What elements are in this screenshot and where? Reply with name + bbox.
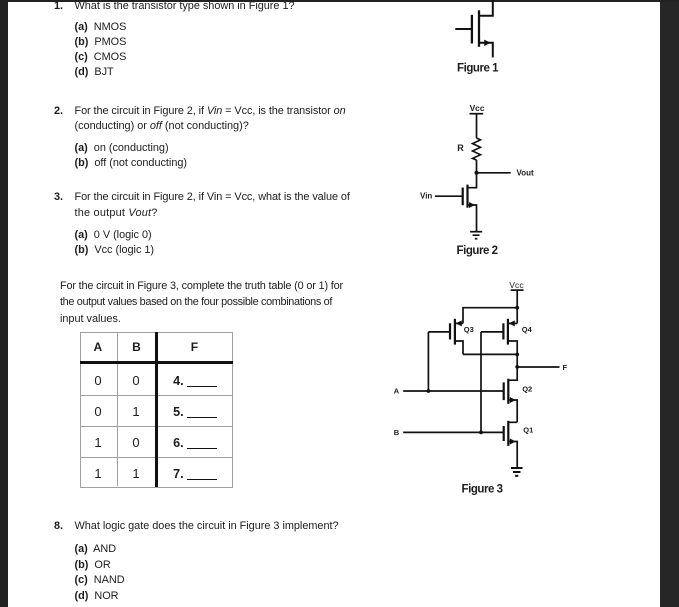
Truth table <box>80 332 233 487</box>
thick header underline <box>80 361 233 364</box>
wire Q4 gate <box>481 331 503 333</box>
resistor R <box>473 138 481 160</box>
svg-text:Vcc: Vcc <box>509 280 524 290</box>
node junction dot drain bus <box>515 353 519 357</box>
transistor Q2 channel bar <box>507 379 509 404</box>
transistor Q-fig1 channel bar <box>478 10 480 47</box>
transistor Q3 source wire <box>455 322 463 324</box>
wire Vcc to resistor <box>476 114 478 138</box>
transistor Q-fig1 source arrow <box>484 40 490 46</box>
FIGURE 3 : CMOS NAND gate <box>385 275 580 500</box>
svg-text:R: R <box>457 143 464 153</box>
transistor Q-fig1 source wire <box>480 43 493 58</box>
svg-text:Q3: Q3 <box>464 325 474 334</box>
wire drain bus to F node <box>516 354 518 367</box>
wire input A to Q2 gate <box>403 390 504 392</box>
transistor Q-fig2 source arrow <box>469 202 475 208</box>
svg-text:Figure 2: Figure 2 <box>457 245 498 257</box>
thick B|F vertical <box>155 332 158 487</box>
row 1 <box>94 375 101 386</box>
Question 2 <box>54 106 63 117</box>
svg-text:Figure 3: Figure 3 <box>462 484 503 496</box>
wire F node to Q2 drain <box>509 367 517 380</box>
transistor Q-fig2 channel bar <box>466 185 468 208</box>
dark top line <box>0 0 679 2</box>
Question 8 <box>54 521 63 532</box>
transistor Q-fig2 gate bar <box>462 188 464 206</box>
outer border <box>80 332 234 488</box>
wire drain bus Q3-Q4 <box>463 353 517 355</box>
wire resistor to node <box>476 160 478 173</box>
svg-text:Vcc: Vcc <box>470 103 485 113</box>
transistor Q-fig1 gate bar <box>471 15 473 44</box>
wire F output <box>517 366 559 368</box>
transistor Q1 gate bar <box>503 426 505 441</box>
wire node to drain <box>468 173 477 188</box>
dark right strip <box>660 0 679 607</box>
svg-text:Q2: Q2 <box>522 385 532 394</box>
FIGURE 2 : resistor-loaded NMOS inverter <box>415 98 545 260</box>
transistor Q1 channel bar <box>507 421 509 446</box>
FIGURE 1 : NMOS symbol <box>440 0 560 80</box>
transistor Q4 drain wire <box>508 341 517 354</box>
ground <box>511 468 523 476</box>
transistor Q4 source arrow <box>509 320 515 326</box>
transistor Q1 source arrow <box>510 439 516 445</box>
header text <box>94 342 103 353</box>
transistor Q4 source wire <box>508 322 517 324</box>
Paragraph before table <box>60 281 343 292</box>
transistor Q2 source wire <box>509 400 517 422</box>
transistor Q2 gate bar <box>503 382 505 400</box>
node Vcc rail <box>511 289 524 291</box>
row 2 <box>94 406 101 417</box>
transistor Q1 source wire <box>509 442 517 468</box>
transistor Q3 channel bar <box>454 319 456 345</box>
wire Q3 gate <box>428 331 450 333</box>
transistor Q4 channel bar <box>507 319 509 345</box>
wire Vin to gate <box>435 195 463 197</box>
svg-text:F: F <box>563 363 568 372</box>
svg-text:Vin: Vin <box>420 192 432 201</box>
node junction dot A <box>427 389 431 393</box>
transistor Q-fig1 gate wire <box>455 28 472 30</box>
transistor Q3 source arrow <box>456 320 462 326</box>
node junction dot Vcc/top-rail <box>515 306 519 310</box>
second row line <box>80 395 233 396</box>
transistor Q3 drain wire <box>455 341 463 354</box>
transistor Q3 gate bar <box>449 323 451 339</box>
node Vcc rail <box>470 113 484 115</box>
node Vout junction dot <box>475 171 479 175</box>
row 4 <box>94 468 101 479</box>
row 3 <box>94 437 101 448</box>
svg-text:Figure 1: Figure 1 <box>457 63 499 75</box>
svg-text:A: A <box>394 386 400 395</box>
wire Vcc down to Q4 source <box>516 290 518 323</box>
svg-text:Vout: Vout <box>517 168 535 177</box>
wire A to Q3 gate <box>427 332 429 391</box>
dark left strip <box>0 0 8 607</box>
ground <box>470 232 482 239</box>
svg-text:Q1: Q1 <box>523 426 533 435</box>
Question 1 <box>54 1 63 12</box>
A|B thin vertical <box>117 332 118 486</box>
svg-text:Q4: Q4 <box>522 325 533 334</box>
wire B to Q4 gate <box>480 332 482 433</box>
Question 3 <box>54 192 63 203</box>
transistor Q4 gate bar <box>502 323 504 339</box>
wire input B to Q1 gate <box>403 431 504 433</box>
wire Q2 source to Q1 drain <box>509 421 517 423</box>
node F junction dot <box>515 365 519 369</box>
wire node to Vout <box>477 172 511 174</box>
svg-text:B: B <box>394 428 400 437</box>
transistor Q-fig2 source wire <box>468 205 477 232</box>
node junction dot B <box>479 431 483 435</box>
wire top rail to Q3 source <box>463 308 517 324</box>
transistor Q2 source arrow <box>510 397 516 403</box>
thin row lines <box>80 426 233 427</box>
transistor Q-fig1 drain wire <box>480 0 493 16</box>
